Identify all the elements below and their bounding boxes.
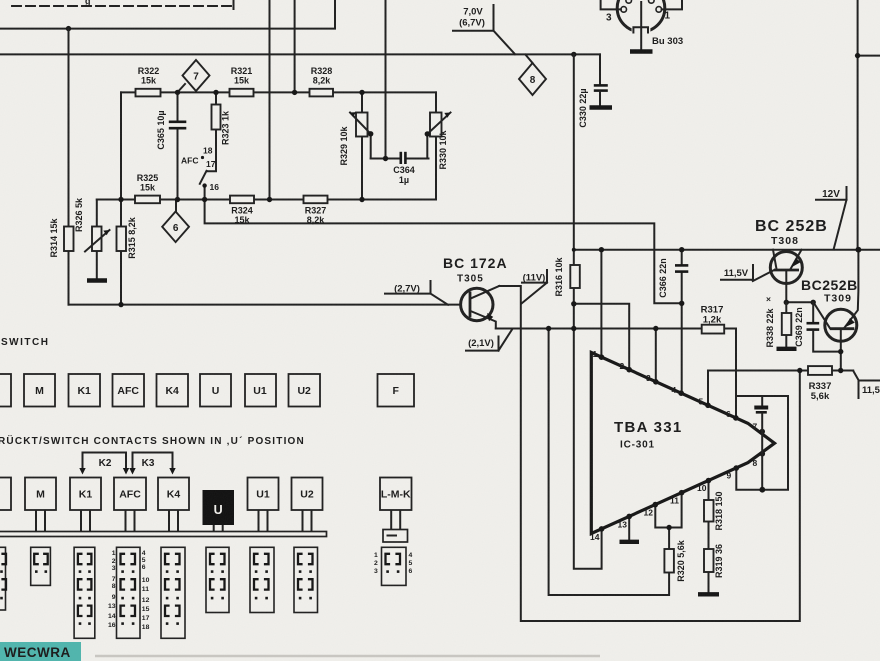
svg-text:R315 8,2k: R315 8,2k bbox=[127, 216, 137, 259]
M strip glyphs bbox=[34, 554, 47, 564]
wire: vertical x=385.5 from top to wiper line bbox=[385, 0, 387, 159]
push-button row 1 bbox=[0, 374, 414, 407]
wire: T308 collector node to C369/T309 base bbox=[786, 301, 813, 303]
capacitor C365 bbox=[169, 121, 187, 124]
wire: AFC pin16 down, y=223.4 bus to C366 bottom link bbox=[205, 186, 682, 304]
svg-text:R329 10k: R329 10k bbox=[339, 125, 349, 165]
resistor R317 bbox=[702, 325, 725, 334]
svg-text:18: 18 bbox=[142, 624, 150, 631]
wire: R323 branch and AFC switch bbox=[207, 92, 216, 171]
svg-text:T308: T308 bbox=[771, 235, 799, 247]
svg-text:14: 14 bbox=[108, 613, 116, 620]
resistor R323 vertical bbox=[212, 105, 221, 130]
junction dots top-left section bbox=[175, 90, 180, 95]
svg-text:7,0V: 7,0V bbox=[463, 7, 483, 18]
wire: 12V rail y=249.7 bbox=[574, 249, 880, 251]
wire: 7V bus y=54.4 from left edge to C330 corner bbox=[0, 53, 600, 55]
svg-text:R324: R324 bbox=[231, 206, 253, 216]
svg-text:(2,1V): (2,1V) bbox=[468, 338, 494, 349]
svg-text:R316 10k: R316 10k bbox=[554, 256, 564, 296]
wire: T305 emitter bus y=328.5 to R317 and pin6 drop bbox=[496, 329, 736, 418]
pin 9 bbox=[734, 465, 740, 471]
svg-text:BC 172A: BC 172A bbox=[443, 255, 508, 271]
svg-text:R330 10k: R330 10k bbox=[438, 129, 448, 169]
node junction R314 top bbox=[66, 26, 71, 31]
wire: R329 branch x=362 bbox=[361, 92, 363, 199]
svg-text:12: 12 bbox=[142, 597, 150, 604]
button stems row2 to bus bbox=[0, 510, 400, 532]
pin 7 bbox=[759, 429, 765, 435]
diamond test point 7 bbox=[183, 60, 210, 91]
U strip glyphs bbox=[210, 554, 225, 590]
resistor R321 bbox=[230, 89, 254, 97]
wire: wiper line to C364 bbox=[371, 158, 400, 160]
contact strip K1 bbox=[74, 547, 95, 638]
button U2 row2 bbox=[292, 478, 323, 511]
capacitor C364 bbox=[399, 152, 402, 164]
partial strip glyphs bbox=[1, 554, 6, 590]
svg-text:11,5: 11,5 bbox=[862, 385, 880, 396]
button M row2 bbox=[25, 478, 56, 511]
pin 10 bbox=[706, 478, 712, 484]
svg-text:15k: 15k bbox=[234, 215, 250, 225]
feedback capacitor at pin7 bbox=[761, 396, 763, 406]
K1 strip glyphs bbox=[78, 554, 92, 616]
wire: R330 branch x=436 bbox=[435, 92, 437, 199]
pin 8 bbox=[760, 451, 766, 457]
contact glyphs bbox=[1, 554, 400, 616]
svg-text:K1: K1 bbox=[77, 385, 91, 397]
svg-text:2: 2 bbox=[374, 560, 378, 567]
svg-text:17: 17 bbox=[206, 159, 216, 169]
svg-text:RÜCKT/SWITCH CONTACTS SHOWN: RÜCKT/SWITCH CONTACTS SHOWN IN ‚U´ POSIT… bbox=[0, 434, 305, 447]
svg-text:9: 9 bbox=[727, 471, 732, 481]
svg-text:M: M bbox=[35, 385, 44, 397]
contact strip M bbox=[31, 547, 51, 585]
wire: pins 11/12 link to R320 and emitter return bbox=[655, 493, 681, 528]
svg-text:3: 3 bbox=[112, 565, 116, 572]
svg-text:13: 13 bbox=[618, 520, 628, 530]
svg-text:15k: 15k bbox=[234, 76, 250, 86]
svg-text:WECWRA: WECWRA bbox=[4, 645, 71, 660]
svg-text:C369 22n: C369 22n bbox=[794, 307, 804, 347]
svg-text:R326 5k: R326 5k bbox=[74, 197, 84, 232]
svg-text:6: 6 bbox=[409, 568, 413, 575]
svg-text:2: 2 bbox=[620, 361, 625, 371]
resistor R328 bbox=[310, 89, 334, 97]
L-M-K mini bus bbox=[383, 530, 408, 543]
svg-text:R314 15k: R314 15k bbox=[49, 217, 59, 257]
svg-text:T309: T309 bbox=[824, 293, 852, 305]
svg-text:AFC: AFC bbox=[181, 156, 198, 166]
svg-text:U2: U2 bbox=[300, 489, 314, 501]
wire: vertical x=294.6 from top to R321 bus bbox=[294, 0, 296, 92]
svg-text:R328: R328 bbox=[311, 66, 333, 76]
button K1 row2 bbox=[70, 478, 101, 511]
svg-text:8: 8 bbox=[753, 458, 758, 468]
contact strip U1 bbox=[250, 547, 274, 612]
svg-text:13: 13 bbox=[108, 603, 116, 610]
svg-text:R318 150: R318 150 bbox=[714, 491, 724, 530]
svg-text:4: 4 bbox=[142, 550, 146, 557]
svg-text:L-M-K: L-M-K bbox=[381, 489, 411, 501]
U2 strip glyphs bbox=[298, 554, 313, 590]
svg-text:6: 6 bbox=[173, 223, 179, 234]
svg-text:5: 5 bbox=[409, 560, 413, 567]
wire: diamond 6 stub bbox=[175, 200, 177, 212]
junction dot pins11/12 tie bbox=[666, 525, 671, 530]
potentiometer R326 bbox=[92, 227, 102, 252]
wire: T305 collector to outer loop and R337 node bbox=[499, 286, 800, 621]
resistor R337 bbox=[808, 366, 832, 375]
svg-text:3: 3 bbox=[374, 568, 378, 575]
svg-text:C366 22n: C366 22n bbox=[658, 258, 668, 298]
svg-text:U: U bbox=[214, 503, 223, 517]
svg-text:K1: K1 bbox=[79, 489, 93, 501]
pin 4 bbox=[678, 390, 684, 396]
svg-text:18: 18 bbox=[203, 146, 213, 156]
svg-text:9: 9 bbox=[112, 594, 116, 601]
svg-text:C330 22µ: C330 22µ bbox=[578, 88, 588, 127]
svg-text:BC252B: BC252B bbox=[801, 277, 858, 293]
wire: C365 stubs x=177.5 bbox=[177, 92, 179, 120]
svg-text:×: × bbox=[766, 294, 771, 304]
svg-text:5: 5 bbox=[142, 557, 146, 564]
wire: R326 branch down bbox=[96, 200, 98, 279]
svg-text:16: 16 bbox=[210, 182, 220, 192]
svg-text:1,2k: 1,2k bbox=[703, 315, 722, 326]
wire: pin3 riser bbox=[655, 329, 657, 382]
transistor T309 BC252B bbox=[801, 250, 858, 371]
top right vertical 12V feed bbox=[857, 0, 859, 250]
svg-text:14: 14 bbox=[590, 532, 600, 542]
dashed enclosure corner (top-left) bbox=[12, 5, 231, 7]
contact bus bar bbox=[0, 532, 327, 537]
svg-text:3: 3 bbox=[646, 373, 651, 383]
svg-text:AFC: AFC bbox=[117, 385, 139, 397]
button K4 bbox=[157, 374, 189, 407]
svg-text:6: 6 bbox=[726, 409, 731, 419]
svg-text:K3: K3 bbox=[142, 458, 155, 469]
pin 6 bbox=[733, 415, 739, 421]
wire: pin1 riser bbox=[600, 250, 602, 358]
svg-text:Bu 303: Bu 303 bbox=[652, 36, 683, 47]
capacitor C330 bbox=[599, 54, 601, 84]
resistor R316 vertical bbox=[570, 265, 580, 288]
svg-text:15: 15 bbox=[142, 606, 150, 613]
pin numbers beside AFC strip bbox=[108, 550, 150, 631]
resistor R315 vertical bbox=[117, 227, 127, 252]
button U bbox=[200, 374, 231, 407]
svg-text:1: 1 bbox=[593, 349, 598, 359]
svg-text:TBA 331: TBA 331 bbox=[614, 419, 683, 436]
svg-text:U2: U2 bbox=[297, 385, 311, 397]
button partial left row2 bbox=[0, 478, 11, 511]
K2 bracket arrows bbox=[83, 453, 127, 471]
voltage label 11,5 bottom right bbox=[859, 381, 880, 399]
svg-text:T305: T305 bbox=[457, 274, 484, 285]
diamond test point 8 bbox=[519, 63, 546, 95]
K3 bracket arrows bbox=[133, 453, 173, 471]
svg-text:6: 6 bbox=[142, 564, 146, 571]
svg-text:1µ: 1µ bbox=[399, 175, 409, 185]
button K1 bbox=[69, 374, 101, 407]
op-amp U IC-301 TBA331 triangle bbox=[591, 353, 774, 534]
svg-text:F: F bbox=[392, 385, 399, 397]
svg-text:8: 8 bbox=[530, 75, 536, 86]
svg-text:8,2k: 8,2k bbox=[307, 215, 326, 225]
wire: lower bus y=199.5 bbox=[97, 199, 436, 201]
wire: pin6 top link to feedback loop bbox=[736, 396, 788, 490]
svg-text:R321: R321 bbox=[231, 66, 253, 76]
DIN socket Bu303 bbox=[601, 0, 684, 52]
svg-text:R325: R325 bbox=[137, 173, 159, 183]
svg-text:7: 7 bbox=[753, 422, 758, 432]
svg-text:11,5V: 11,5V bbox=[724, 268, 749, 279]
svg-text:10: 10 bbox=[697, 483, 707, 493]
svg-text:11: 11 bbox=[142, 586, 149, 593]
resistor R320 bbox=[664, 549, 674, 573]
wire: vertical R314 branch x=68.5 bbox=[68, 29, 70, 305]
resistor R314 vertical bbox=[64, 227, 74, 252]
button F bbox=[378, 374, 415, 407]
potentiometer R330 bbox=[430, 113, 442, 137]
svg-text:15k: 15k bbox=[141, 76, 157, 86]
svg-text:5,6k: 5,6k bbox=[811, 391, 830, 402]
pin 1 bbox=[599, 354, 605, 360]
svg-text:4: 4 bbox=[409, 552, 413, 559]
button partial left bbox=[0, 374, 11, 407]
wire: R322/R321/R328 bus y=92.4 bbox=[121, 91, 436, 93]
svg-text:R338 22k: R338 22k bbox=[765, 307, 775, 347]
svg-text:1: 1 bbox=[665, 11, 671, 22]
svg-text:BC 252B: BC 252B bbox=[755, 218, 828, 235]
svg-text:3: 3 bbox=[606, 13, 612, 24]
resistor R324 bbox=[230, 196, 254, 204]
pin 5 bbox=[705, 403, 711, 409]
potentiometer R329 bbox=[356, 113, 368, 137]
svg-text:10: 10 bbox=[142, 577, 150, 584]
resistor R322 bbox=[136, 89, 161, 97]
button M bbox=[24, 374, 55, 407]
resistor R338 bbox=[785, 302, 787, 347]
svg-text:R320 5,6k: R320 5,6k bbox=[676, 539, 686, 582]
wire: vertical x=121 through R315 bbox=[120, 92, 122, 304]
svg-text:4: 4 bbox=[672, 385, 677, 395]
svg-text:U1: U1 bbox=[256, 489, 270, 501]
svg-text:AFC: AFC bbox=[119, 489, 141, 501]
diamond test point 6 bbox=[162, 212, 189, 243]
watermark WECWRA bbox=[0, 642, 81, 661]
svg-text:R327: R327 bbox=[305, 206, 327, 216]
svg-text:U: U bbox=[212, 385, 220, 397]
svg-text:U1: U1 bbox=[253, 385, 267, 397]
pin numbers beside L-M-K strip bbox=[374, 552, 413, 575]
junction dots middle bbox=[599, 247, 604, 252]
wire: x574 main vertical (7V bus to pin14 jog) bbox=[574, 54, 602, 568]
resistor R327 bbox=[304, 196, 328, 204]
pin 2 bbox=[626, 367, 632, 373]
svg-text:C365 10µ: C365 10µ bbox=[156, 110, 166, 149]
contact strip partial left bbox=[0, 547, 6, 610]
svg-text:15k: 15k bbox=[140, 183, 156, 193]
transistor T308 BC252B bbox=[753, 218, 828, 302]
wire: top bus y=28.6 with corner up at x=335 bbox=[0, 0, 335, 29]
ground below R326 bbox=[87, 278, 107, 282]
resistor R318 bbox=[704, 500, 714, 522]
resistor R319 bbox=[704, 549, 714, 572]
resistor R325 bbox=[135, 196, 160, 204]
pin 3 bbox=[653, 379, 659, 385]
svg-text:17: 17 bbox=[142, 615, 150, 622]
svg-text:16: 16 bbox=[108, 622, 116, 629]
button U2 bbox=[289, 374, 321, 407]
capacitor C369 bbox=[812, 302, 814, 322]
wire: base bus y=304.6 to T305 bbox=[69, 304, 461, 306]
contact strip U bbox=[206, 547, 229, 612]
svg-text:K2: K2 bbox=[99, 458, 112, 469]
pin 12 bbox=[653, 502, 659, 508]
svg-text:7: 7 bbox=[112, 576, 116, 583]
pin 11 bbox=[679, 490, 685, 496]
svg-text:12: 12 bbox=[644, 508, 654, 518]
svg-text:2: 2 bbox=[112, 558, 116, 565]
U1 strip glyphs bbox=[254, 554, 269, 590]
contact strip AFC bbox=[117, 547, 141, 638]
wire: pin5 riser and R337 bus y=370.5 bbox=[708, 371, 853, 406]
pin 14 bbox=[599, 526, 605, 532]
svg-text:8,2k: 8,2k bbox=[313, 76, 332, 86]
K4 strip glyphs bbox=[165, 554, 180, 616]
svg-text:1: 1 bbox=[374, 552, 378, 559]
svg-text:7: 7 bbox=[193, 72, 199, 83]
svg-text:IC-301: IC-301 bbox=[620, 440, 655, 451]
svg-text:R323 1k: R323 1k bbox=[221, 110, 231, 145]
button U1 bbox=[245, 374, 276, 407]
capacitor C366 bbox=[675, 264, 688, 267]
svg-text:SWITCH: SWITCH bbox=[1, 337, 49, 348]
svg-text:M: M bbox=[36, 489, 45, 501]
svg-text:(6,7V): (6,7V) bbox=[459, 18, 485, 29]
svg-text:R319 36: R319 36 bbox=[714, 544, 724, 578]
wire: pin10 through R318 R319 to ground bbox=[708, 481, 710, 593]
AFC strip glyphs bbox=[121, 554, 136, 616]
svg-text:5: 5 bbox=[699, 397, 704, 407]
contact strips bbox=[0, 547, 406, 638]
pin 13 bbox=[626, 514, 632, 520]
svg-text:K4: K4 bbox=[165, 385, 179, 397]
button U1 row2 bbox=[248, 478, 279, 511]
svg-text:K4: K4 bbox=[167, 489, 181, 501]
L-M-K strip glyphs bbox=[386, 554, 401, 564]
contact strip U2 bbox=[294, 547, 318, 612]
scan smudge bottom bbox=[95, 655, 600, 658]
wire: C366 stubs and pin4 riser bbox=[681, 250, 683, 264]
button AFC bbox=[113, 374, 145, 407]
wire: vertical x=269.5 from top to lower bus bbox=[269, 0, 271, 200]
svg-text:8: 8 bbox=[112, 583, 116, 590]
wire: pin13 ground stub bbox=[628, 516, 630, 540]
svg-text:11: 11 bbox=[670, 496, 679, 506]
svg-text:g: g bbox=[85, 0, 91, 6]
contact strip K4 bbox=[161, 547, 185, 638]
svg-text:1: 1 bbox=[112, 550, 116, 557]
contact strip L-M-K bbox=[382, 547, 407, 585]
transistor T305 BC172A bbox=[443, 255, 508, 329]
button L-M-K row2 bbox=[380, 478, 412, 511]
svg-text:R322: R322 bbox=[138, 66, 160, 76]
button K4 row2 bbox=[158, 478, 189, 511]
button AFC row2 bbox=[114, 478, 146, 511]
contact dots in strips bbox=[0, 570, 399, 625]
svg-text:12V: 12V bbox=[822, 189, 840, 200]
svg-text:C364: C364 bbox=[393, 165, 415, 175]
push-button row 2 bbox=[0, 478, 412, 511]
wire: R316 bottom to pin2 bbox=[574, 304, 629, 370]
button U pressed (black) bbox=[203, 490, 235, 525]
